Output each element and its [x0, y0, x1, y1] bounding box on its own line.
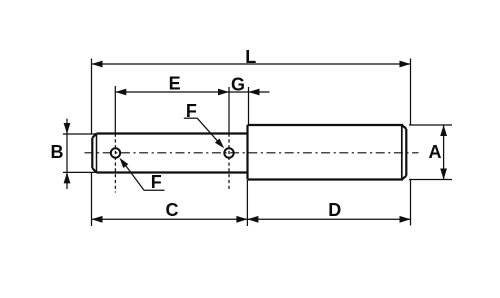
- B bottom arrow: [64, 172, 71, 183]
- F leader top: [184, 118, 222, 146]
- extension lines: [63, 59, 452, 227]
- pin large-diameter body outline: [248, 125, 407, 180]
- D right arrow: [400, 216, 411, 223]
- svg-text:F: F: [186, 101, 197, 121]
- E right arrow: [218, 89, 229, 96]
- svg-text:D: D: [328, 200, 341, 220]
- dimension L line: [92, 63, 411, 65]
- A top arrow: [440, 125, 447, 136]
- G right leader arrow: [249, 89, 260, 96]
- dimension C line: [92, 218, 248, 220]
- dimension E line: [115, 91, 229, 93]
- svg-text:F: F: [151, 172, 162, 192]
- hole axis 1 (dashed vertical): [114, 134, 116, 193]
- A bottom arrow: [440, 169, 447, 180]
- svg-text:A: A: [429, 142, 442, 162]
- dimension A line: [443, 125, 445, 180]
- hole 2: [224, 148, 233, 157]
- svg-text:B: B: [51, 142, 64, 162]
- C right arrow: [236, 216, 247, 223]
- D left arrow: [247, 216, 258, 223]
- dimension D line: [247, 218, 410, 220]
- svg-text:C: C: [166, 200, 179, 220]
- hole 1: [111, 148, 120, 157]
- svg-text:E: E: [169, 74, 181, 94]
- arrowheads: [64, 61, 447, 223]
- E left arrow: [115, 89, 126, 96]
- L left arrow: [92, 61, 103, 68]
- pin small-diameter body outline: [92, 134, 247, 173]
- left chamfer edge line: [96, 134, 98, 173]
- right chamfer edge line: [401, 125, 403, 180]
- B top arrow: [64, 123, 71, 134]
- dimension B line: [66, 119, 68, 189]
- centerline: [85, 152, 419, 154]
- F leader bottom: [122, 161, 165, 191]
- F top leader arrowhead: [215, 139, 224, 149]
- svg-text:L: L: [245, 47, 256, 67]
- F bottom leader arrowhead: [120, 158, 129, 168]
- L right arrow: [400, 61, 411, 68]
- C left arrow: [92, 216, 103, 223]
- hole axis 2 (dashed vertical): [228, 134, 230, 192]
- dimension G line: [229, 91, 249, 93]
- svg-text:G: G: [231, 74, 245, 94]
- dimension G leader tail: [249, 91, 270, 93]
